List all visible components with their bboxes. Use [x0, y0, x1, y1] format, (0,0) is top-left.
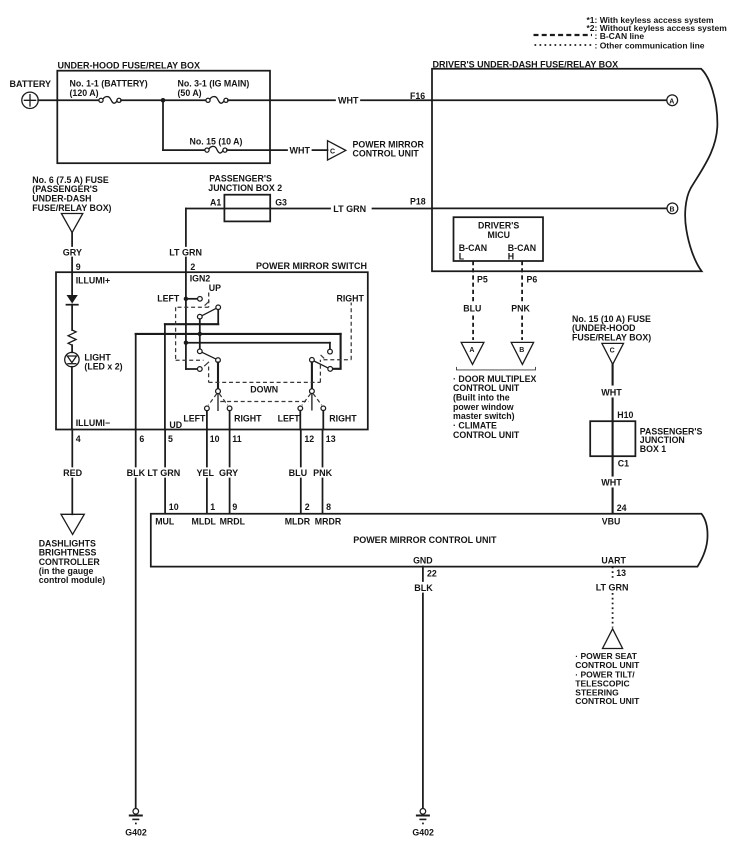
wire PNK upper (pin 13)	[322, 430, 324, 467]
wire GND down	[422, 567, 424, 582]
svg-text:BATTERY: BATTERY	[10, 79, 52, 89]
wire IGN2 bottom corner to contact	[186, 368, 198, 370]
svg-text:WHT: WHT	[601, 477, 622, 487]
ground G402 right	[416, 809, 430, 825]
svg-text:BLU: BLU	[289, 468, 308, 478]
wire ground bus down to pin 6	[135, 334, 137, 430]
mech dashed: left vertical linkage	[175, 307, 177, 360]
svg-text:9: 9	[76, 262, 81, 272]
wire BLU lower	[300, 479, 302, 514]
wire UD horizontal	[165, 323, 218, 325]
svg-text:13: 13	[326, 434, 336, 444]
connector B circle	[667, 203, 678, 214]
svg-text:4: 4	[76, 434, 81, 444]
contact circle up-left	[198, 296, 203, 301]
IGN2 feed line (line C)	[186, 342, 330, 344]
svg-text:9: 9	[232, 502, 237, 512]
svg-text:YEL: YEL	[197, 468, 215, 478]
svg-text:ILLUMI+: ILLUMI+	[76, 276, 110, 286]
junction node on ground bus	[198, 332, 202, 336]
wire pin13 contact down	[322, 411, 324, 430]
junction node under-hood	[161, 98, 166, 103]
wire left arm to pivot	[217, 363, 219, 389]
junction node on IGN2 main	[184, 341, 188, 345]
No.6 fuse note	[32, 175, 111, 213]
svg-text:POWER MIRROR CONTROL UNIT: POWER MIRROR CONTROL UNIT	[353, 535, 497, 545]
svg-text:(50 A): (50 A)	[178, 88, 202, 98]
diode (illumination)	[67, 295, 78, 305]
under-hood fuse/relay box outline	[57, 71, 270, 164]
passenger's junction box 2 outline	[224, 195, 270, 222]
wire WHT continue to connector C	[313, 149, 328, 151]
svg-text:12: 12	[304, 434, 314, 444]
svg-text:CONTROL UNIT: CONTROL UNIT	[353, 149, 420, 159]
contact circle left-lower-left	[197, 367, 202, 372]
svg-text:WHT: WHT	[601, 387, 622, 397]
svg-text:POWER MIRROR SWITCH: POWER MIRROR SWITCH	[256, 261, 367, 271]
pivot circle right selector feed	[310, 358, 315, 363]
svg-text:8: 8	[326, 502, 331, 512]
svg-text:LEFT: LEFT	[278, 414, 301, 424]
svg-text:2: 2	[190, 262, 195, 272]
svg-text:LEFT: LEFT	[183, 414, 206, 424]
mech dashed: UP linkage vertical	[208, 293, 210, 308]
mech dashed: right horizontal to RIGHT linkage	[324, 359, 352, 361]
wire LT GRN down from corner	[185, 209, 187, 247]
passenger's junction box 1 outline	[590, 421, 635, 456]
fuse No.3-1 symbol	[206, 97, 228, 104]
fuse No.15 symbol	[205, 146, 227, 153]
wire fuse No.15 to box edge	[227, 149, 270, 151]
svg-text:C: C	[610, 348, 615, 355]
wire from up-lower contact down to ground bus	[199, 319, 201, 349]
wire LT GRN lower	[164, 479, 166, 514]
svg-text:A1: A1	[210, 197, 221, 207]
wire F16 to connector A	[432, 99, 667, 101]
wire BLU upper (pin 12)	[300, 430, 302, 467]
svg-text:RIGHT: RIGHT	[329, 414, 357, 424]
wire WHT to connector C	[270, 149, 287, 151]
svg-text:LT GRN: LT GRN	[596, 583, 629, 593]
svg-text:A: A	[669, 99, 674, 106]
ground G402 left	[129, 809, 143, 825]
svg-text:P6: P6	[527, 275, 538, 285]
wire LED to pin 4	[71, 367, 73, 430]
svg-text:MRDR: MRDR	[315, 516, 342, 526]
contact circle left-arm-end	[216, 358, 221, 363]
svg-text:GND: GND	[413, 556, 433, 566]
svg-text:1: 1	[210, 502, 215, 512]
svg-text:: Other communication line: : Other communication line	[595, 41, 705, 51]
wire right arm to pivot	[311, 362, 313, 388]
svg-text:F16: F16	[410, 91, 425, 101]
door multiplex / climate control note	[453, 374, 537, 440]
svg-text:B: B	[519, 347, 524, 354]
ground bus right corner down	[333, 334, 341, 369]
wire LT GRN to P18	[373, 208, 433, 210]
svg-text:H10: H10	[617, 410, 633, 420]
wire GRY lower	[229, 479, 231, 514]
wire fuse No.3-1 to box edge	[228, 99, 270, 101]
wire box edge to fuse No.1-1	[57, 99, 99, 101]
B-CAN H dashed wire	[521, 261, 523, 303]
contact circle pin13	[321, 406, 326, 411]
mech dashed: down linkage vertical left	[208, 367, 210, 383]
power seat connector triangle (pointing up)	[603, 629, 623, 649]
driver's MICU box	[454, 217, 544, 261]
mech dashed: right selector V leg right	[313, 394, 322, 406]
svg-text:BLK: BLK	[127, 468, 146, 478]
dashlights connector triangle	[61, 514, 84, 534]
svg-text:GRY: GRY	[63, 247, 82, 257]
mech arrow tick left-lower	[204, 362, 209, 366]
wire RED upper	[71, 430, 73, 467]
wire junction down	[162, 100, 164, 150]
pivot circle right selector	[310, 389, 315, 394]
svg-text:5: 5	[168, 434, 173, 444]
wire from up-right contact down	[217, 310, 219, 325]
wire GRY to switch pin 9	[71, 258, 73, 273]
svg-text:6: 6	[139, 434, 144, 444]
mech dashed: left selector V leg right	[219, 394, 227, 406]
No.6 fuse connector triangle	[61, 214, 82, 233]
resistor (illumination)	[68, 330, 76, 345]
mech arrow tick right-upper	[321, 355, 325, 359]
wire WHT from connector C	[612, 364, 614, 384]
svg-text:BOX 1: BOX 1	[640, 444, 667, 454]
wire GRY upper (pin 11)	[229, 430, 231, 467]
svg-text:BLU: BLU	[463, 304, 481, 314]
battery symbol	[22, 92, 38, 108]
wire PNK lower	[322, 479, 324, 514]
wire through junction box 1	[612, 421, 614, 456]
passenger's junction box 2 label	[208, 173, 282, 192]
svg-text:WHT: WHT	[290, 145, 311, 155]
svg-text:11: 11	[232, 434, 241, 444]
switch arm (right mirror selector)	[314, 361, 328, 368]
fuse No.1-1 symbol	[99, 97, 121, 104]
svg-text:CONTROL UNIT: CONTROL UNIT	[575, 696, 640, 706]
driver's under-dash fuse/relay box outline (torn right edge)	[432, 69, 717, 272]
junction node IGN2 upper	[184, 297, 188, 301]
power mirror control unit box outline (torn right edge)	[151, 514, 708, 567]
connector A triangle	[461, 342, 484, 364]
wire LT GRN from junction box 2 corner	[186, 208, 330, 210]
wire UART dotted upper	[612, 567, 614, 581]
passenger's junction box 1 label	[640, 426, 703, 454]
contact circle up-right	[216, 305, 221, 310]
svg-text:MUL: MUL	[155, 516, 175, 526]
svg-text:RED: RED	[63, 468, 83, 478]
contact circle pin11	[227, 406, 232, 411]
wire WHT continue to junction box 1	[612, 399, 614, 422]
contact circle pin12	[298, 406, 303, 411]
svg-text:No. 15 (10 A): No. 15 (10 A)	[190, 136, 243, 146]
svg-text:UP: UP	[209, 283, 221, 293]
wire WHT to driver's box	[270, 99, 335, 101]
wire BLK upper (pin 6)	[135, 430, 137, 467]
ground bus horizontal (line B)	[136, 333, 341, 335]
mech dashed: UP linkage horizontal	[176, 306, 209, 308]
wire BLK GND to ground	[422, 594, 424, 809]
svg-text:(LED x 2): (LED x 2)	[84, 361, 122, 371]
legend other-communication dotted line sample	[535, 44, 593, 46]
contact circle right-lower-right	[328, 367, 333, 372]
svg-text:13: 13	[616, 568, 626, 578]
wire IGN2 main vertical	[185, 272, 187, 369]
wire junction to fuse No.15	[163, 149, 205, 151]
wire pin10 contact down	[206, 411, 208, 430]
svg-text:FUSE/RELAY BOX): FUSE/RELAY BOX)	[572, 333, 651, 343]
svg-text:MLDL: MLDL	[192, 516, 217, 526]
svg-text:22: 22	[427, 568, 437, 578]
svg-text:A: A	[469, 347, 474, 354]
LED lamp symbol	[65, 352, 79, 366]
contact circle left-mid	[197, 349, 202, 354]
svg-text:DOWN: DOWN	[250, 385, 278, 395]
mech dashed: selector coupling horizontal	[220, 401, 309, 403]
svg-text:PNK: PNK	[313, 468, 333, 478]
svg-text:BLK: BLK	[414, 583, 433, 593]
svg-text:G3: G3	[275, 197, 287, 207]
svg-text:FUSE/RELAY BOX): FUSE/RELAY BOX)	[32, 203, 111, 213]
svg-text:P18: P18	[410, 196, 426, 206]
svg-text:ILLUMI−: ILLUMI−	[76, 418, 110, 428]
B-CAN L dashed wire	[472, 261, 474, 303]
wire BLK long to ground	[135, 479, 137, 809]
svg-text:(120 A): (120 A)	[70, 88, 99, 98]
connector C triangle to power mirror control unit	[328, 141, 346, 160]
svg-text:G402: G402	[412, 828, 434, 838]
wire pin 9 to diode	[71, 272, 73, 295]
mech dashed: left horizontal to arm	[176, 359, 204, 361]
power seat / tilt steering note	[575, 651, 640, 706]
wire resistor to LED	[71, 345, 73, 352]
svg-text:GRY: GRY	[219, 468, 238, 478]
neutral arm left selector	[217, 394, 219, 411]
wire WHT to pin 24	[612, 489, 614, 514]
svg-text:UD: UD	[169, 420, 182, 430]
connector A circle	[667, 95, 678, 106]
wire LT GRN upper (pin 5)	[164, 430, 166, 467]
svg-text:2: 2	[305, 502, 310, 512]
svg-text:VBU: VBU	[602, 516, 621, 526]
svg-text:WHT: WHT	[338, 96, 359, 106]
wire pin12 contact down	[299, 411, 301, 430]
svg-text:CONTROL UNIT: CONTROL UNIT	[453, 430, 520, 440]
svg-text:LEFT: LEFT	[157, 293, 180, 303]
mech arrow tick upper	[205, 301, 210, 306]
svg-text:C: C	[330, 149, 335, 156]
svg-text:LT GRN: LT GRN	[147, 468, 180, 478]
wire YEL lower	[206, 479, 208, 514]
wire junction to up contact	[186, 298, 198, 300]
svg-text:L: L	[459, 252, 465, 262]
svg-text:G402: G402	[125, 828, 147, 838]
neutral arm right selector	[311, 394, 313, 411]
svg-text:MICU: MICU	[488, 230, 510, 240]
mech dashed: right selector V leg left	[302, 394, 311, 406]
wire UD down to pin 5	[164, 324, 166, 429]
mech dashed: down linkage vertical right	[319, 360, 321, 383]
svg-text:C1: C1	[618, 458, 629, 468]
svg-text:MLDR: MLDR	[285, 516, 311, 526]
bracket under connectors A and B	[457, 367, 536, 370]
wire WHT continues	[361, 99, 432, 101]
wire GRY from triangle	[71, 233, 73, 246]
svg-text:LT GRN: LT GRN	[169, 247, 202, 257]
pivot circle left selector	[216, 389, 221, 394]
svg-text:24: 24	[617, 503, 627, 513]
wire fuse No.1-1 to junction	[121, 99, 206, 101]
switch arm (left mirror selector)	[202, 352, 216, 359]
contact circle up-lower	[197, 314, 202, 319]
svg-text:H: H	[508, 252, 514, 262]
wire P18 to connector B	[432, 207, 667, 209]
line C corner down to contact	[329, 343, 331, 350]
connector C triangle (from under-hood)	[602, 343, 624, 364]
wire battery to box	[38, 99, 57, 101]
wire YEL upper (pin 10)	[206, 430, 208, 467]
power mirror switch box outline	[56, 272, 368, 429]
svg-text:PNK: PNK	[511, 304, 530, 314]
mech dashed: left selector V leg left	[208, 394, 216, 406]
svg-text:B: B	[670, 207, 675, 214]
svg-text:P5: P5	[477, 275, 488, 285]
wire UART dotted lower	[612, 593, 614, 628]
contact circle right-upper	[328, 349, 333, 354]
switch arm (up/down selector upper)	[202, 308, 216, 315]
No.15 fuse note	[572, 314, 651, 343]
svg-text:RIGHT: RIGHT	[234, 414, 262, 424]
svg-text:UART: UART	[601, 556, 626, 566]
svg-text:MRDL: MRDL	[220, 516, 246, 526]
legend B-CAN dashed line sample	[534, 34, 593, 36]
svg-text:LT GRN: LT GRN	[333, 204, 366, 214]
svg-text:UNDER-HOOD FUSE/RELAY BOX: UNDER-HOOD FUSE/RELAY BOX	[58, 61, 201, 71]
mech dashed: RIGHT linkage vertical	[350, 303, 352, 360]
mech dashed: DOWN horizontal linkage	[209, 381, 321, 383]
connector B triangle	[511, 342, 533, 364]
wire RED lower	[71, 479, 73, 515]
svg-text:RIGHT: RIGHT	[337, 293, 365, 303]
wire diode to resistor	[71, 305, 73, 330]
wire pin11 contact down	[229, 411, 231, 430]
svg-text:IGN2: IGN2	[190, 274, 211, 284]
wire WHT below junction box 1	[612, 456, 614, 475]
svg-text:: B-CAN line: : B-CAN line	[595, 31, 645, 41]
svg-text:10: 10	[169, 502, 179, 512]
dashlights brightness controller note	[39, 539, 106, 585]
svg-text:control module): control module)	[39, 575, 106, 585]
svg-text:JUNCTION BOX 2: JUNCTION BOX 2	[208, 183, 282, 193]
contact circle pin10	[205, 406, 210, 411]
wire LT GRN to switch pin 2	[185, 258, 187, 273]
svg-text:10: 10	[210, 434, 220, 444]
